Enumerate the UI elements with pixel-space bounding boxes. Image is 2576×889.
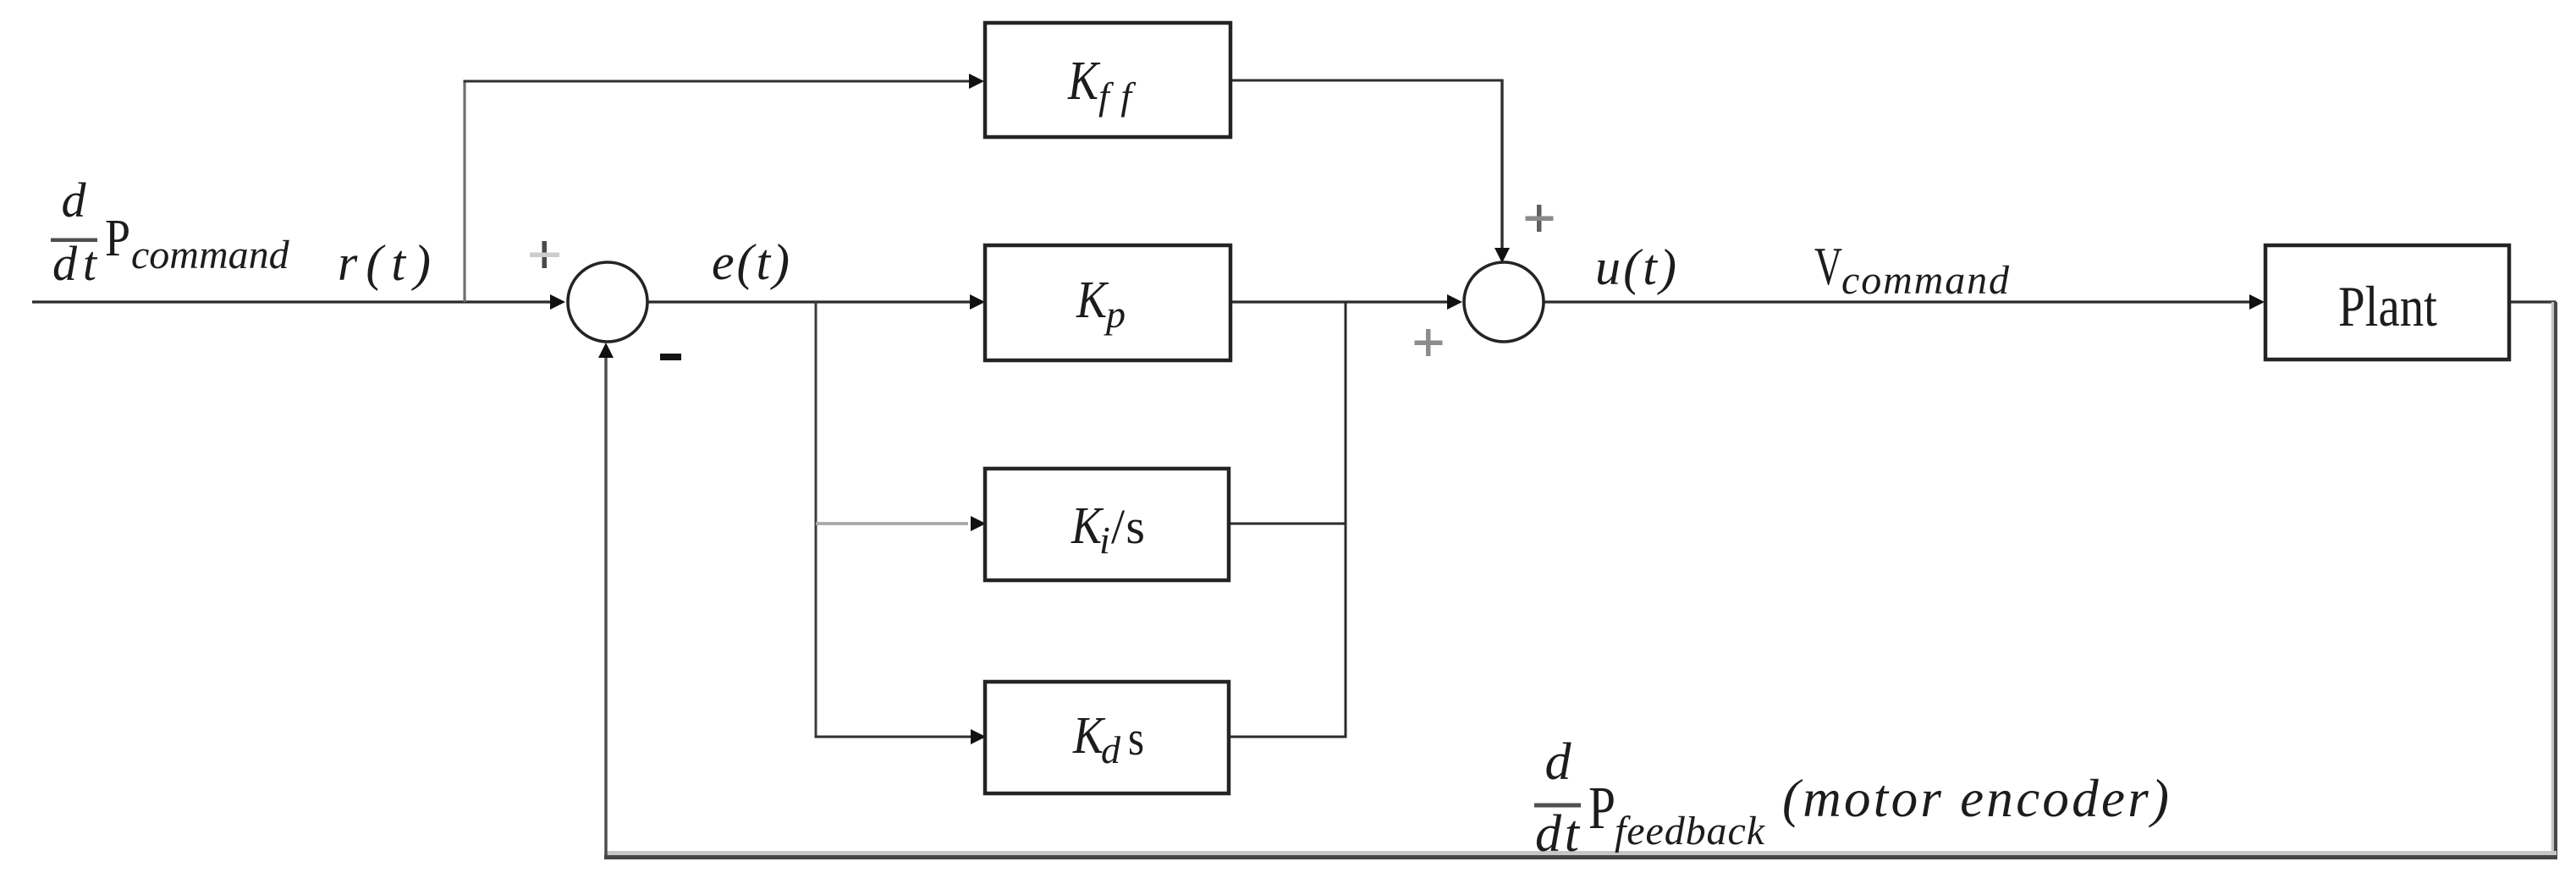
svg-text:d: d xyxy=(62,173,87,228)
svg-text:r(t): r(t) xyxy=(338,235,431,291)
svg-text:Plant: Plant xyxy=(2338,274,2437,338)
svg-text:dt: dt xyxy=(1535,805,1581,863)
svg-text:command: command xyxy=(131,233,290,277)
svg-text:dt: dt xyxy=(52,236,98,291)
svg-text:u(t): u(t) xyxy=(1595,239,1676,295)
svg-text:e(t): e(t) xyxy=(712,234,790,290)
svg-text:s: s xyxy=(1128,711,1144,766)
svg-text:d: d xyxy=(1101,728,1121,771)
svg-text:command: command xyxy=(1841,258,2010,303)
svg-text:P: P xyxy=(1588,774,1616,842)
svg-text:(motor encoder): (motor encoder) xyxy=(1782,769,2169,828)
svg-text:feedback: feedback xyxy=(1615,809,1766,853)
svg-text:i: i xyxy=(1099,519,1110,562)
svg-text:/s: /s xyxy=(1111,499,1145,554)
svg-text:K: K xyxy=(1076,272,1109,329)
svg-text:V: V xyxy=(1814,236,1842,296)
svg-text:K: K xyxy=(1067,50,1100,112)
svg-text:p: p xyxy=(1104,293,1126,336)
svg-text:d: d xyxy=(1545,733,1572,791)
svg-text:P: P xyxy=(105,210,130,267)
